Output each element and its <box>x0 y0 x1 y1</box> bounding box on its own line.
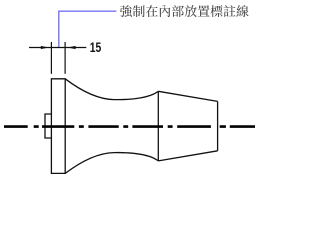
dimension line <box>29 47 86 49</box>
neck bottom curve <box>65 153 158 174</box>
cone top edge <box>158 91 217 101</box>
boss tab on flange left <box>45 114 51 138</box>
centerline (dash-dot) <box>4 125 255 128</box>
leader (blue polyline from dimension to annotation text) <box>59 11 117 47</box>
arrowhead left (points right at left extension line) <box>41 46 49 49</box>
cone bottom edge <box>158 151 217 161</box>
extension line right <box>64 42 66 74</box>
cone right edge <box>217 101 219 150</box>
annotation text 強制在內部放置標註線 <box>120 5 249 17</box>
neck top curve <box>65 79 158 100</box>
extension line left <box>50 42 52 74</box>
svg-text:15: 15 <box>90 40 102 55</box>
flange outline <box>51 79 65 174</box>
arrowhead right (points left at right extension line) <box>68 46 76 49</box>
barrel/cone junction edge <box>157 91 159 161</box>
